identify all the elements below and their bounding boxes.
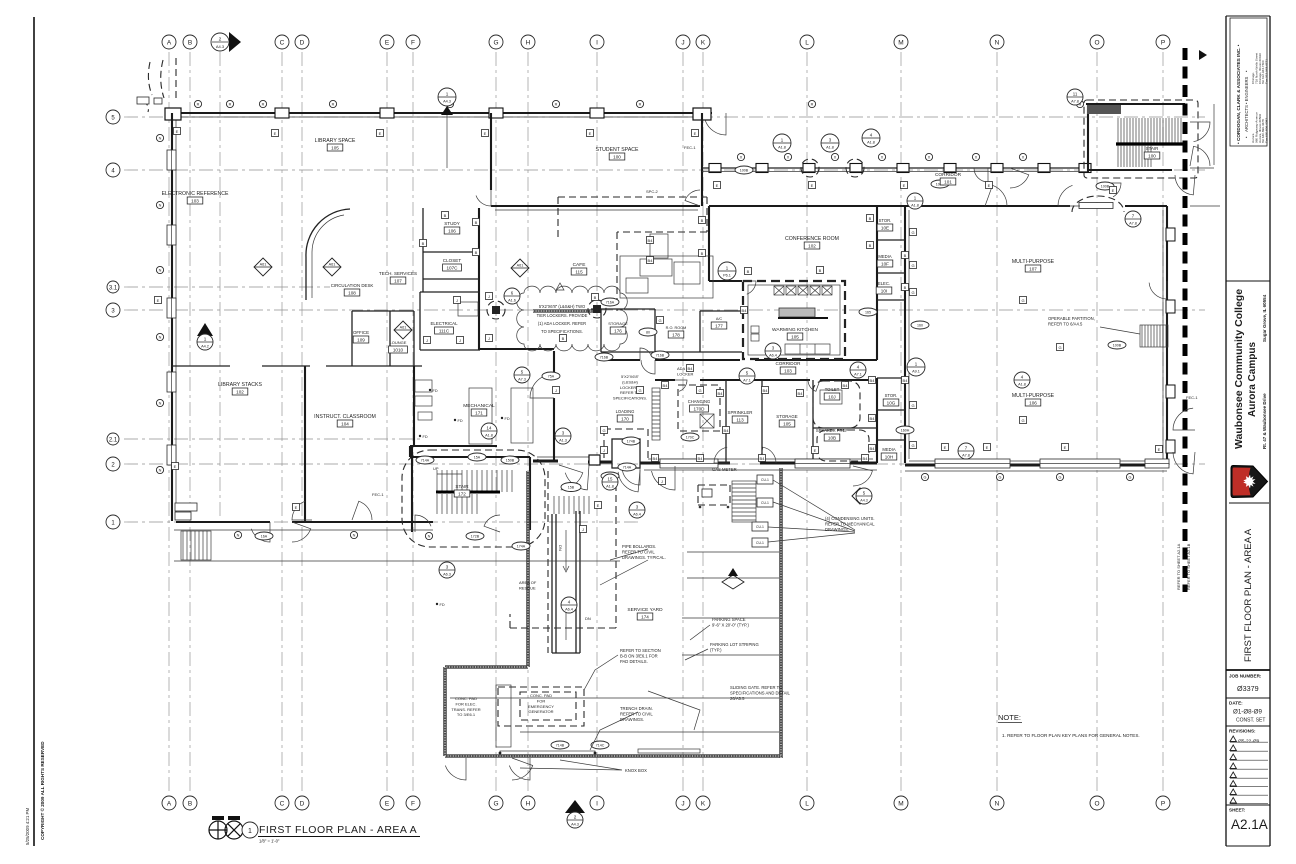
room tag oval [681,433,699,441]
svg-text:107: 107 [1029,266,1037,271]
svg-text:A6.4: A6.4 [565,608,573,612]
svg-text:COPYRIGHT © 2009 ALL RIGHTS RE: COPYRIGHT © 2009 ALL RIGHTS RESERVED [39,741,45,840]
svg-text:1010: 1010 [393,347,404,352]
colonnade pilaster [709,164,721,173]
svg-text:REFER TO SECTION: REFER TO SECTION [620,648,661,653]
svg-text:AREA OF: AREA OF [519,580,537,585]
colonnade pilaster [803,164,815,173]
warming kitchen dashed boundary [743,281,845,359]
svg-text:FEC-1: FEC-1 [372,492,384,497]
svg-text:SPRINKLER: SPRINKLER [728,410,753,415]
svg-text:PIPE BOLLARDS.: PIPE BOLLARDS. [622,544,656,549]
svg-text:DRAWINGS. TYPICAL.: DRAWINGS. TYPICAL. [622,555,666,560]
svg-text:176: 176 [614,328,622,333]
west window block [167,372,176,392]
svg-text:E: E [589,131,592,136]
svg-text:Ø1-Ø8-Ø9: Ø1-Ø8-Ø9 [1233,709,1262,716]
svg-text:1: 1 [248,828,252,835]
SPC-2 zone dashed boundary [558,197,707,311]
svg-text:172: 172 [458,491,466,496]
svg-text:UP: UP [433,466,439,471]
svg-text:DRAWINGS.: DRAWINGS. [620,717,644,722]
corridor 103 north wall [601,359,877,361]
svg-text:B: B [422,241,425,246]
colonnade pilaster [756,164,768,173]
svg-text:9'-6" X 20'-0" (TYP.): 9'-6" X 20'-0" (TYP.) [712,622,749,627]
svg-text:2.1: 2.1 [109,437,118,443]
south facade west segment [533,461,877,463]
svg-text:2: 2 [219,37,222,43]
svg-text:DATE:: DATE: [1229,701,1243,706]
existing canopy dashed arcs [148,62,152,95]
svg-text:B: B [904,253,907,258]
sheet number field [1226,804,1270,806]
svg-text:178: 178 [672,332,680,337]
colonnade pilaster [850,164,862,173]
svg-text:A4.3: A4.3 [443,100,451,104]
svg-text:5'X2'X6'8": 5'X2'X6'8" [621,374,640,379]
svg-text:ELECTRONIC REFERENCE: ELECTRONIC REFERENCE [162,191,229,197]
svg-text:DN: DN [558,545,563,551]
svg-text:KNOX BOX: KNOX BOX [625,768,647,773]
east wall pilaster [1166,440,1175,453]
section marker 2/A4.3 bottom [565,800,585,828]
svg-text:REFER TO SHEET A2.1B: REFER TO SHEET A2.1B [1186,543,1191,590]
svg-text:FEC-1: FEC-1 [684,145,696,150]
svg-text:REFER TO SHEET A2.1A: REFER TO SHEET A2.1A [1176,543,1181,590]
svg-text:CORRIDOR: CORRIDOR [935,172,962,178]
grid column G [495,52,497,793]
svg-text:CONST. SET: CONST. SET [1236,718,1265,724]
title block frame [1226,16,1270,846]
svg-text:GENERATOR: GENERATOR [529,709,554,714]
parking stripes [450,552,779,732]
college logo shield [1231,466,1268,498]
svg-text:• CORDOGAN, CLARK & ASSOCIATES: • CORDOGAN, CLARK & ASSOCIATES INC. • [1236,44,1241,144]
svg-text:FD: FD [433,389,438,393]
svg-text:N: N [237,534,240,538]
room partitions south band [726,380,877,462]
svg-text:STUDY: STUDY [444,221,460,226]
svg-text:WARMING KITCHEN: WARMING KITCHEN [772,327,818,333]
svg-text:MECHANICAL: MECHANICAL [463,403,495,409]
svg-text:FD: FD [440,603,445,607]
svg-text:109: 109 [357,337,365,342]
svg-text:G: G [493,801,498,808]
svg-text:A7.1: A7.1 [743,379,751,383]
svg-text:SPECIFICATIONS AND DETAIL: SPECIFICATIONS AND DETAIL [730,690,791,695]
svg-text:E: E [944,445,947,450]
revision row 8 [1230,798,1236,804]
svg-text:A1.8: A1.8 [606,485,614,489]
svg-text:E: E [385,801,390,808]
svg-text:B4: B4 [798,391,804,396]
svg-text:B4: B4 [870,416,876,421]
stair 100 door arcs [1190,122,1210,142]
svg-text:G: G [493,40,498,47]
svg-text:A61: A61 [400,326,407,330]
grid row 1 [124,521,640,523]
match line (heavy dashed) [1183,48,1188,592]
svg-text:CONFERENCE ROOM: CONFERENCE ROOM [785,236,839,242]
svg-text:A7.8: A7.8 [962,454,970,458]
svg-text:G: G [1129,476,1132,480]
room tag oval [735,166,753,174]
svg-text:100B: 100B [1101,185,1110,189]
svg-text:B: B [594,295,597,300]
grid column M [900,52,902,793]
svg-text:CU-1: CU-1 [761,501,769,505]
svg-text:X: X [928,156,931,160]
section marker 2/A4.2 top [211,32,241,520]
colonnade pilaster [1038,164,1050,173]
stair 100 walls [1086,104,1185,172]
svg-text:75A: 75A [548,375,555,379]
svg-text:N: N [159,269,162,273]
svg-text:G: G [911,403,914,408]
detail ref circle [821,134,839,152]
kitchen counters [774,286,784,295]
svg-text:A4.3: A4.3 [571,823,579,827]
svg-text:J: J [488,294,490,299]
svg-text:102: 102 [236,389,244,394]
door arcs [705,113,726,135]
room tag oval [466,532,484,540]
colonnade pilaster [944,164,956,173]
svg-text:SLIDING GATE. REFER TO: SLIDING GATE. REFER TO [730,685,783,690]
revision triangle [556,283,564,290]
arrow diamond bottom [722,575,744,589]
svg-text:TRENCH DRAIN.: TRENCH DRAIN. [620,706,653,711]
svg-text:113: 113 [736,417,744,422]
grid column B [189,52,191,793]
svg-text:Ø5-22-Ø9: Ø5-22-Ø9 [1238,739,1260,745]
detail ref circle [907,193,923,209]
svg-text:B4: B4 [648,258,654,263]
revision row 4 [1230,763,1236,769]
svg-text:A1.6: A1.6 [508,299,516,303]
svg-text:REFER TO CIVIL: REFER TO CIVIL [620,711,653,716]
svg-text:N: N [159,137,162,141]
architect info box [1230,18,1267,146]
svg-text:714A: 714A [421,459,430,463]
revision row 6 [1230,781,1236,787]
svg-text:B4: B4 [653,456,659,461]
circulation desk curved wall [306,209,350,300]
svg-text:B: B [475,250,478,255]
svg-text:716B: 716B [600,356,609,360]
grid column O [1096,52,1098,793]
sw entry door arcs [251,522,270,542]
detail ref circle [773,134,791,152]
svg-text:O: O [1094,40,1099,47]
study west wall [422,208,424,292]
svg-text:106: 106 [1029,400,1037,405]
svg-text:115: 115 [575,269,583,274]
changing room dashed [678,385,720,431]
svg-text:N: N [159,336,162,340]
area B stubs [1190,104,1220,206]
south window block [935,459,1010,468]
library south wall [176,521,433,523]
stair 172 doors [415,515,431,532]
svg-text:REFER TO 6/A4.5: REFER TO 6/A4.5 [1048,321,1083,326]
svg-text:RESCUE: RESCUE [519,585,536,590]
separator [1226,280,1270,282]
south window block [1145,459,1169,468]
svg-text:105: 105 [783,421,791,426]
svg-text:A/C: A/C [716,317,723,321]
south window block [660,459,718,468]
svg-text:NOTE:: NOTE: [998,713,1021,722]
stacks/classroom divider wall [304,366,306,522]
svg-text:X: X [834,156,837,160]
detail ref circle [439,562,455,578]
svg-text:CIRCULATION DESK: CIRCULATION DESK [331,283,374,288]
stair 172 dashed boundary [402,450,545,547]
colonnade inner line [702,171,1088,173]
dashed circles typ pilasters [801,159,819,177]
grid row 2 [124,463,1205,465]
svg-text:A1.8: A1.8 [778,146,786,150]
svg-text:B: B [904,285,907,290]
svg-text:JOB NUMBER:: JOB NUMBER: [1229,674,1262,679]
svg-text:E: E [988,183,991,188]
svg-text:B: B [819,268,822,273]
corner wall stubs top-left [137,97,149,104]
grid column D [301,52,303,793]
svg-text:M: M [898,40,903,47]
svg-text:O: O [1094,801,1099,808]
svg-text:CLOSET: CLOSET [443,258,462,263]
svg-text:A9.1: A9.1 [912,370,920,374]
room tag oval [1108,341,1126,349]
svg-text:5/25/2009 4:21 PM: 5/25/2009 4:21 PM [25,808,30,845]
svg-text:B4: B4 [698,456,704,461]
detail ref circle [1125,211,1141,227]
svg-text:E: E [274,131,277,136]
grid column E [386,52,388,793]
revision row 2 [1230,745,1236,751]
svg-text:A: A [167,40,172,47]
svg-text:LOCKER: LOCKER [677,371,694,376]
svg-text:SPEAKER PREP: SPEAKER PREP [816,428,849,433]
west window block [167,150,176,170]
room tag oval [622,437,640,445]
room tag oval [468,453,486,461]
trench drain [500,751,595,755]
tech services east wall [478,208,480,350]
svg-text:N: N [428,535,431,539]
svg-text:174B: 174B [627,440,636,444]
grid column C [281,52,283,793]
condensing units hatch [732,481,756,522]
grid column A [168,52,170,793]
detail ref circle [481,423,497,439]
svg-text:E: E [157,298,160,303]
svg-text:100B: 100B [740,169,749,173]
svg-text:C: C [280,801,285,808]
svg-text:B-B ON 3/E6.1 FOR: B-B ON 3/E6.1 FOR [620,653,658,658]
drawing title [209,816,420,844]
svg-text:B: B [188,40,192,47]
east wall pilaster [1166,228,1175,241]
room tag oval [255,532,273,540]
svg-text:FD: FD [423,435,428,439]
svg-text:B4: B4 [843,383,849,388]
svg-text:CU-1: CU-1 [756,525,764,529]
svg-text:107: 107 [394,278,402,283]
svg-text:P: P [1161,40,1165,47]
svg-text:G: G [1021,298,1024,303]
student space east wall [701,113,703,206]
svg-text:G: G [1059,476,1062,480]
svg-text:172B: 172B [471,535,480,539]
section marker 1/A4.3 top [438,88,456,168]
svg-text:G: G [602,428,605,433]
top wall pilasters [165,108,181,120]
yard gate doors [445,758,466,780]
svg-text:J: J [555,388,557,393]
svg-text:Ø3379: Ø3379 [1237,684,1259,693]
mech area east wall [553,351,555,461]
svg-text:(4) CONDENSING UNITS.: (4) CONDENSING UNITS. [825,516,875,521]
svg-text:B4: B4 [903,378,909,383]
svg-text:INSTRUCT. CLASSROOM: INSTRUCT. CLASSROOM [314,414,376,420]
conference east wall [876,206,878,463]
stair 172 walls [410,446,530,530]
svg-text:SPC-2: SPC-2 [646,189,659,194]
svg-text:LOUNGE: LOUNGE [390,340,407,345]
svg-text:G: G [638,388,641,393]
svg-text:107C: 107C [447,265,459,270]
room tag oval [639,328,657,336]
east wall pilaster [1166,385,1175,398]
svg-text:100: 100 [613,154,621,159]
detail ref circle [1067,89,1083,105]
room tag oval [601,298,619,306]
svg-text:104: 104 [341,421,349,426]
svg-text:P6.1: P6.1 [723,274,731,278]
svg-text:I: I [596,40,598,47]
exterior wall inner faces [176,117,1167,517]
svg-text:A7.3: A7.3 [518,378,526,382]
svg-text:STOR.: STOR. [879,218,892,223]
svg-text:103: 103 [784,368,792,373]
svg-text:A1.3: A1.3 [559,439,567,443]
svg-text:A2.1A: A2.1A [1231,817,1268,832]
svg-text:STOR.: STOR. [885,393,898,398]
svg-text:ELECTRICAL: ELECTRICAL [430,321,458,326]
svg-text:26/A5.5: 26/A5.5 [730,696,745,701]
detail ref circle [504,288,520,304]
svg-text:B4: B4 [688,366,694,371]
detail ref circle [561,597,577,613]
svg-text:H: H [526,40,531,47]
room tag oval [501,456,519,464]
svg-text:B: B [188,801,192,808]
svg-text:14: 14 [487,426,492,431]
sidewalk lines [174,530,620,561]
svg-text:714B: 714B [556,744,565,748]
svg-text:B: B [869,216,872,221]
room tag oval [896,426,914,434]
svg-text:J: J [488,336,490,341]
svg-text:A7.8: A7.8 [1129,222,1137,226]
detail ref circle [850,362,866,378]
svg-text:10F: 10F [881,261,889,266]
svg-text:MULTI-PURPOSE: MULTI-PURPOSE [1012,259,1055,265]
svg-text:SERVICE YARD: SERVICE YARD [627,607,663,613]
svg-text:B4: B4 [663,383,669,388]
svg-text:170: 170 [621,416,629,421]
grid column J [682,52,684,793]
multipurpose west wall [904,206,906,463]
stair 100 treads [1118,118,1181,143]
svg-text:103: 103 [191,198,199,203]
svg-text:E: E [597,503,600,508]
svg-text:MULTI-PURPOSE: MULTI-PURPOSE [1012,393,1055,399]
svg-text:R: R [229,103,232,107]
svg-text:A4.3: A4.3 [860,499,867,503]
svg-text:EMERGENCY: EMERGENCY [528,704,554,709]
vestibule block [612,439,640,468]
svg-text:CHANGING: CHANGING [688,399,711,404]
svg-text:J: J [661,479,663,484]
room tag oval [542,372,560,380]
south entry doors 15B [559,465,583,490]
date field [1226,697,1270,699]
svg-text:J: J [582,527,584,532]
grid column P [1162,52,1164,793]
svg-text:TO SPECIFICATIONS.: TO SPECIFICATIONS. [541,329,583,334]
svg-text:X: X [787,156,790,160]
svg-text:B4: B4 [742,308,748,313]
svg-text:E: E [814,448,817,453]
svg-text:ADA: ADA [677,366,686,371]
floor drain [501,417,503,419]
svg-text:(TYP.): (TYP.) [710,647,722,652]
svg-text:R: R [811,103,814,107]
classroom east wall [411,446,413,532]
room tag oval [651,351,669,359]
svg-text:100B: 100B [1113,344,1122,348]
keynote letter boxes [174,128,181,135]
svg-text:CORRIDOR: CORRIDOR [775,361,801,366]
svg-text:L: L [805,801,809,808]
svg-text:10G: 10G [887,400,896,405]
detail ref circle [1014,372,1030,388]
svg-text:105: 105 [791,334,799,339]
svg-text:80: 80 [646,331,650,335]
svg-text:TIER LOCKERS. PROVIDE: TIER LOCKERS. PROVIDE [537,313,588,318]
svg-text:X: X [881,156,884,160]
svg-text:A61: A61 [329,263,336,267]
svg-text:171: 171 [475,410,483,415]
svg-text:PARKING SPACE: PARKING SPACE [712,617,746,622]
svg-text:CU-1: CU-1 [756,541,764,545]
svg-text:J: J [603,448,605,453]
south facade east segment [905,464,1167,467]
svg-text:E: E [1158,447,1161,452]
conc pad elec trans [496,685,511,747]
locker strip [652,388,660,440]
diamond refs [254,258,272,276]
svg-text:FOR: FOR [537,698,546,703]
study/closet partitions [423,252,479,279]
storage 176 walls [591,309,660,352]
east wall door arcs [1149,281,1167,299]
